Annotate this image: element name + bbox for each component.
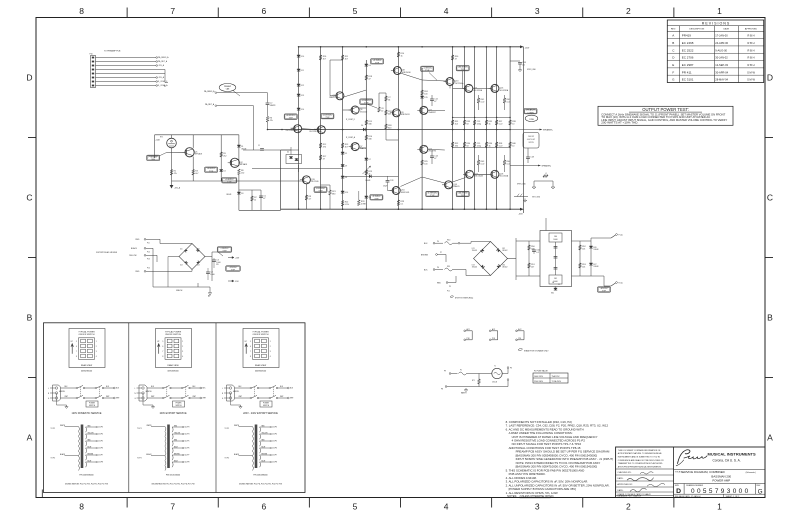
svg-text:3: 3 — [270, 351, 271, 353]
svg-text:5: 5 — [76, 341, 77, 343]
svg-text:YELLOW: YELLOW — [88, 432, 95, 434]
svg-text:TYP: TYP — [461, 69, 466, 71]
svg-text:INSTRUMENTS AND IS SUBMITTED T: INSTRUMENTS AND IS SUBMITTED TO YOU IN — [618, 456, 661, 459]
svg-text:C10 P5: C10 P5 — [98, 441, 103, 443]
svg-text:P/N 0048586000: P/N 0048586000 — [79, 475, 93, 477]
svg-text:3: 3 — [535, 6, 540, 16]
svg-text:ON/OFF SWITCH: ON/OFF SWITCH — [79, 334, 96, 336]
svg-text:R B H: R B H — [748, 48, 755, 52]
svg-text:EC 2522: EC 2522 — [682, 48, 694, 52]
svg-text:R B H: R B H — [748, 34, 755, 38]
svg-text:2: 2 — [270, 346, 271, 348]
svg-text:REAR VIEW: REAR VIEW — [81, 364, 92, 367]
svg-text:2k2: 2k2 — [223, 155, 226, 157]
svg-text:47: 47 — [323, 158, 325, 160]
svg-text:7: 7 — [250, 351, 251, 353]
svg-text:WHT: WHT — [193, 396, 196, 398]
svg-text:0.22: 0.22 — [507, 163, 511, 165]
svg-text:MJE15031: MJE15031 — [401, 114, 410, 116]
svg-text:CONFIDENCE AND SHALL NOT BE DI: CONFIDENCE AND SHALL NOT BE DISCLOSED OR — [618, 459, 664, 462]
svg-text:(Schematic): (Schematic) — [746, 471, 756, 474]
svg-text:8: 8 — [250, 356, 251, 358]
svg-text:BLK: BLK — [65, 386, 68, 388]
svg-text:UP: UP — [71, 341, 73, 343]
svg-text:GRN/YEL: GRN/YEL — [233, 391, 239, 393]
svg-text:WHT: WHT — [290, 398, 293, 400]
svg-text:C10 P3: C10 P3 — [98, 427, 103, 429]
svg-text:680PF: 680PF — [270, 105, 277, 107]
svg-text:RED: RED — [174, 439, 177, 441]
svg-text:P4: P4 — [437, 241, 439, 243]
svg-text:T5A 125V: T5A 125V — [552, 375, 561, 378]
svg-text:D2: D2 — [223, 170, 225, 172]
svg-text:6: 6 — [261, 6, 266, 16]
svg-text:4: 4 — [444, 6, 449, 16]
svg-text:BLACK: BLACK — [131, 247, 138, 250]
svg-text:1: 1 — [717, 6, 722, 16]
svg-text:YELLOW: YELLOW — [262, 432, 269, 434]
svg-text:C10 P7: C10 P7 — [185, 455, 190, 457]
svg-text:0.22: 0.22 — [481, 101, 485, 103]
svg-text:TYP: TYP — [430, 195, 435, 197]
svg-text:MJL3281A: MJL3281A — [500, 89, 509, 92]
svg-text:C10 P7: C10 P7 — [98, 455, 103, 457]
svg-text:8: 8 — [79, 502, 84, 512]
svg-text:1N4448: 1N4448 — [594, 266, 599, 268]
svg-text:GRN/YEL: GRN/YEL — [59, 391, 65, 393]
svg-text:47: 47 — [455, 58, 457, 60]
svg-text:47: 47 — [434, 158, 436, 160]
svg-text:P8: P8 — [441, 389, 443, 391]
svg-text:REAR VIEW: REAR VIEW — [167, 364, 178, 367]
svg-text:-15V_A: -15V_A — [158, 76, 165, 79]
svg-text:8: 8 — [162, 356, 163, 358]
svg-text:PREAMP: PREAMP — [149, 155, 159, 158]
svg-text:5: 5 — [250, 341, 251, 343]
svg-text:6: 6 — [76, 346, 77, 348]
svg-text:C66 C67: C66 C67 — [528, 136, 534, 138]
svg-text:7: 7 — [170, 6, 175, 16]
svg-text:MJL1302A: MJL1302A — [500, 175, 509, 178]
svg-text:WHITE: WHITE — [147, 425, 152, 427]
svg-text:0038236000: 0038236000 — [81, 370, 93, 372]
svg-text:BROWN: BROWN — [421, 255, 429, 257]
svg-text:24-APR-00: 24-APR-00 — [715, 41, 728, 45]
svg-text:C10 P6: C10 P6 — [98, 448, 103, 450]
svg-text:-65V: -65V — [519, 213, 524, 215]
svg-text:2W 2W: 2W 2W — [528, 142, 534, 144]
svg-text:330: 330 — [455, 145, 458, 147]
svg-text:RED: RED — [262, 439, 265, 441]
svg-text:P6: P6 — [437, 267, 439, 269]
svg-text:1N5402: 1N5402 — [502, 250, 507, 252]
svg-text:TO P1: TO P1 — [51, 428, 56, 430]
svg-text:0.5%: 0.5% — [345, 204, 350, 206]
svg-text:BLUE: BLUE — [174, 446, 178, 448]
svg-text:P16: P16 — [147, 268, 150, 270]
svg-text:1000: 1000 — [210, 274, 214, 276]
svg-text:4k7: 4k7 — [345, 146, 348, 148]
svg-text:D: D — [676, 488, 681, 495]
svg-text:WHT: WHT — [151, 396, 154, 398]
svg-text:REV.: REV. — [671, 29, 676, 31]
svg-text:P11: P11 — [147, 243, 150, 245]
svg-text:BLK: BLK — [239, 386, 242, 388]
svg-text:D24: D24 — [502, 265, 505, 267]
svg-text:PR419: PR419 — [682, 34, 692, 38]
svg-text:TYP: TYP — [231, 270, 236, 272]
svg-text:POWER AMP: POWER AMP — [712, 479, 730, 483]
svg-text:CHECKED BY:: CHECKED BY: — [617, 472, 631, 474]
svg-text:MPSA18: MPSA18 — [195, 153, 202, 156]
svg-text:PA_SEND_A: PA_SEND_A — [204, 90, 215, 93]
svg-text:100V-120V: 100V-120V — [534, 376, 544, 378]
svg-text:EC 3101: EC 3101 — [682, 78, 694, 82]
svg-text:DATE:: DATE: — [617, 489, 623, 492]
svg-text:A: A — [767, 433, 773, 443]
svg-text:D3: D3 — [241, 193, 243, 195]
svg-text:BLUE: BLUE — [88, 460, 92, 462]
svg-text:2: 2 — [182, 346, 183, 348]
svg-text:C61: C61 — [554, 278, 557, 280]
svg-text:0.22: 0.22 — [499, 145, 503, 147]
svg-text:+65V: +65V — [525, 47, 530, 49]
svg-text:D12: D12 — [301, 85, 304, 87]
svg-text:GRN/YEL: GRN/YEL — [146, 391, 152, 393]
svg-text:PA_RET_A: PA_RET_A — [205, 103, 215, 106]
svg-text:SPEAKER+: SPEAKER+ — [543, 129, 554, 132]
svg-text:C10 P3: C10 P3 — [272, 427, 277, 429]
svg-text:F1: F1 — [460, 370, 462, 372]
svg-text:+10dB: +10dB — [155, 140, 160, 142]
svg-text:D13: D13 — [197, 265, 200, 267]
svg-text:D11: D11 — [301, 70, 304, 72]
svg-text:2: 2 — [626, 502, 631, 512]
svg-text:2SC2240: 2SC2240 — [309, 131, 317, 133]
svg-text:0.1: 0.1 — [536, 252, 539, 254]
svg-text:DATE:: DATE: — [617, 477, 623, 480]
svg-text:C10 P4: C10 P4 — [272, 434, 277, 436]
svg-text:220V-240V: 220V-240V — [534, 381, 544, 383]
svg-text:P7: P7 — [440, 252, 442, 254]
svg-text:PR 411: PR 411 — [682, 70, 692, 74]
svg-text:7: 7 — [76, 351, 77, 353]
svg-text:10k: 10k — [582, 248, 585, 250]
svg-text:10: 10 — [512, 123, 514, 125]
svg-text:5: 5 — [353, 502, 358, 512]
svg-text:100V EXPORT SERVICE: 100V EXPORT SERVICE — [159, 412, 187, 415]
svg-text:C10 P6: C10 P6 — [185, 448, 190, 450]
svg-text:820: 820 — [388, 127, 391, 129]
svg-text:SIG: SIG — [151, 159, 155, 161]
svg-text:D4: D4 — [287, 152, 289, 154]
svg-text:T2.5A 250V: T2.5A 250V — [552, 380, 562, 383]
svg-text:4: 4 — [270, 356, 271, 358]
svg-text:3: 3 — [535, 502, 540, 512]
svg-text:1N5402: 1N5402 — [472, 250, 477, 252]
svg-text:1N5402: 1N5402 — [472, 267, 477, 269]
svg-text:E: E — [672, 63, 674, 67]
svg-text:1: 1 — [270, 341, 271, 343]
svg-text:1000: 1000 — [216, 262, 220, 264]
svg-text:D9: D9 — [345, 165, 347, 167]
svg-text:C10 P3: C10 P3 — [185, 427, 190, 429]
svg-text:TYP: TYP — [602, 291, 607, 293]
svg-text:C10 P6: C10 P6 — [272, 448, 277, 450]
svg-text:R B H: R B H — [748, 41, 755, 45]
svg-text:3: 3 — [182, 351, 183, 353]
svg-text:WHT: WHT — [280, 396, 283, 398]
svg-text:4.99K: 4.99K — [361, 203, 367, 205]
svg-text:MJL1302A: MJL1302A — [474, 175, 483, 178]
svg-text:5: 5 — [162, 341, 163, 343]
svg-text:47: 47 — [368, 78, 370, 80]
svg-text:2SA970: 2SA970 — [360, 147, 366, 150]
svg-text:N: N — [135, 393, 136, 395]
svg-text:1N5402: 1N5402 — [502, 267, 507, 269]
svg-text:DESCRIPTION: DESCRIPTION — [689, 29, 704, 31]
svg-text:D1: D1 — [241, 146, 243, 148]
svg-text:BLUE: BLUE — [88, 446, 92, 448]
svg-text:D26: D26 — [593, 247, 596, 249]
svg-text:C10 P5: C10 P5 — [185, 441, 190, 443]
svg-text:1: 1 — [182, 341, 183, 343]
svg-text:BLK: BLK — [151, 386, 154, 388]
svg-text:BLK: BLK — [193, 386, 196, 388]
svg-text:SWITCH: SWITCH — [263, 405, 269, 407]
svg-text:4k7: 4k7 — [195, 173, 198, 175]
svg-text:T1: T1 — [494, 366, 496, 368]
svg-text:1N4148: 1N4148 — [226, 194, 231, 196]
svg-text:P/N 0052056000: P/N 0052056000 — [166, 475, 180, 477]
svg-text:10000: 10000 — [553, 239, 557, 241]
svg-text:R E V I S I O N S: R E V I S I O N S — [702, 21, 730, 25]
svg-text:BLK: BLK — [280, 386, 283, 388]
svg-text:MUSICAL INSTRUMENTS: MUSICAL INSTRUMENTS — [708, 452, 756, 457]
svg-text:4.7: 4.7 — [309, 198, 312, 200]
svg-text:PA_RET_A: PA_RET_A — [158, 60, 168, 63]
svg-text:CONN: CONN — [527, 112, 534, 114]
svg-text:SWITCH: SWITCH — [175, 405, 181, 407]
svg-text:P13: P13 — [147, 259, 150, 261]
svg-text:1: 1 — [717, 502, 722, 512]
svg-text:0.047 0.047: 0.047 0.047 — [527, 139, 535, 141]
svg-text:2SC2240: 2SC2240 — [360, 111, 368, 113]
svg-text:DATE: DATE — [723, 28, 729, 31]
svg-text:C10 P8: C10 P8 — [98, 462, 103, 464]
svg-text:6: 6 — [261, 502, 266, 512]
svg-text:WHT: WHT — [106, 396, 109, 398]
svg-text:P18: P18 — [518, 338, 521, 340]
svg-text:DISTORTION AC GROUND: DISTORTION AC GROUND — [96, 251, 118, 254]
svg-text:SPEAKER-: SPEAKER- — [542, 165, 552, 168]
svg-text:BLUE: BLUE — [174, 460, 178, 462]
svg-text:VIRT_GND: VIRT_GND — [532, 197, 541, 199]
svg-text:THIS DOCUMENT CONTAINS INFORMA: THIS DOCUMENT CONTAINS INFORMATION OF — [618, 449, 661, 452]
svg-text:0.1: 0.1 — [401, 203, 404, 205]
svg-text:SPEAKER: SPEAKER — [525, 109, 536, 112]
svg-text:N: N — [48, 393, 49, 395]
svg-text:OUTPUT POWER TEST:: OUTPUT POWER TEST: — [642, 107, 689, 112]
svg-text:RED: RED — [174, 425, 177, 427]
svg-text:REV.: REV. — [757, 485, 762, 487]
svg-text:17-JAN-00: 17-JAN-00 — [715, 34, 728, 38]
svg-text:6: 6 — [250, 346, 251, 348]
svg-text:SPKR_GND: SPKR_GND — [517, 184, 527, 186]
svg-text:C60: C60 — [554, 236, 557, 238]
svg-text:2: 2 — [626, 6, 631, 16]
svg-text:+15V: +15V — [235, 257, 240, 259]
svg-text:100: 100 — [424, 163, 427, 165]
svg-text:82: 82 — [467, 145, 469, 147]
svg-text:56: 56 — [388, 99, 390, 101]
svg-text:S M W: S M W — [747, 78, 755, 82]
svg-text:4: 4 — [96, 356, 97, 358]
svg-text:220p: 220p — [477, 123, 481, 125]
svg-text:4k7: 4k7 — [345, 58, 348, 60]
svg-text:C: C — [26, 193, 32, 203]
svg-text:MJE15030: MJE15030 — [402, 72, 411, 74]
svg-text:D4: D4 — [369, 65, 371, 67]
svg-text:BROWN: BROWN — [262, 453, 268, 455]
svg-text:S_CLMP_F: S_CLMP_F — [158, 81, 168, 83]
svg-text:D22: D22 — [502, 248, 505, 250]
svg-text:7: 7 — [170, 502, 175, 512]
svg-text:C10 P7: C10 P7 — [272, 455, 277, 457]
svg-text:UP: UP — [245, 341, 247, 343]
svg-text:RED: RED — [88, 439, 91, 441]
svg-text:P9: P9 — [444, 371, 446, 373]
svg-text:R B H: R B H — [748, 63, 755, 67]
svg-text:47: 47 — [263, 198, 265, 200]
svg-text:D21: D21 — [472, 248, 475, 250]
svg-text:C1: C1 — [258, 145, 260, 147]
svg-text:D27: D27 — [593, 264, 596, 266]
svg-text:D13: D13 — [301, 95, 304, 97]
svg-text:SERVICE DIAGRAM, COMBINED: SERVICE DIAGRAM, COMBINED — [681, 470, 725, 474]
svg-text:D6: D6 — [361, 125, 363, 127]
svg-text:8: 8 — [76, 356, 77, 358]
svg-text:C10 P4: C10 P4 — [185, 434, 190, 436]
svg-text:A: A — [27, 433, 33, 443]
svg-text:1: 1 — [96, 341, 97, 343]
svg-text:BROWN: BROWN — [174, 453, 180, 455]
svg-text:S M W: S M W — [747, 70, 755, 74]
svg-text:TO P2: TO P2 — [51, 458, 56, 460]
svg-text:MPSA18: MPSA18 — [240, 163, 247, 166]
svg-text:4k3: 4k3 — [388, 113, 391, 115]
svg-text:C28: C28 — [390, 180, 394, 182]
svg-text:0048582000: 0048582000 — [255, 370, 267, 372]
svg-text:BLK: BLK — [106, 386, 109, 388]
svg-text:APPROVED: APPROVED — [745, 28, 758, 31]
svg-text:A2: A2 — [164, 85, 166, 88]
svg-text:C10 P8: C10 P8 — [272, 462, 277, 464]
svg-text:RELEASE DATE: 17-JAN-04: RELEASE DATE: 17-JAN-04 — [675, 495, 702, 498]
svg-text:POWER: POWER — [176, 403, 183, 405]
svg-text:1N4448: 1N4448 — [365, 180, 370, 182]
svg-text:YELLOW: YELLOW — [174, 432, 181, 434]
svg-text:W10: W10 — [447, 240, 450, 242]
svg-text:D5: D5 — [345, 153, 347, 155]
svg-text:PREAMP: PREAMP — [224, 85, 232, 88]
svg-text:TO P1: TO P1 — [137, 428, 142, 430]
svg-text:F: F — [672, 70, 674, 74]
svg-text:R_CLMP_F: R_CLMP_F — [346, 119, 355, 121]
svg-text:REAR VIEW: REAR VIEW — [255, 364, 266, 367]
svg-text:D14: D14 — [180, 265, 183, 267]
svg-text:12-SEP-03: 12-SEP-03 — [715, 63, 728, 67]
svg-text:APPROVED BY:: APPROVED BY: — [617, 483, 633, 486]
svg-text:100: 100 — [424, 93, 427, 95]
svg-text:TYP: TYP — [227, 181, 232, 183]
svg-text:5: 5 — [353, 6, 358, 16]
svg-text:TYP: TYP — [375, 62, 380, 64]
svg-text:TO P2: TO P2 — [137, 458, 142, 460]
svg-text:330: 330 — [368, 123, 371, 125]
svg-text:RT1: RT1 — [160, 137, 163, 139]
svg-text:2SA970: 2SA970 — [329, 96, 335, 99]
svg-text:D11: D11 — [180, 249, 183, 251]
svg-text:1k: 1k — [254, 199, 256, 201]
svg-text:UP: UP — [157, 341, 159, 343]
svg-text:P18: P18 — [467, 338, 470, 340]
svg-text:150: 150 — [241, 172, 244, 174]
svg-text:P10: P10 — [90, 54, 93, 56]
svg-text:TYP: TYP — [425, 70, 430, 72]
svg-text:1k: 1k — [489, 123, 491, 125]
svg-text:2k7: 2k7 — [531, 266, 534, 268]
svg-text:B: B — [672, 41, 674, 45]
svg-text:WHITE: WHITE — [60, 425, 65, 427]
svg-text:F1 FUSE VALUE: F1 FUSE VALUE — [534, 370, 548, 373]
svg-text:SWITCH: SWITCH — [89, 405, 95, 407]
svg-text:TYP: TYP — [374, 198, 379, 200]
svg-text:C18: C18 — [530, 157, 534, 159]
svg-text:W11: W11 — [447, 266, 450, 268]
svg-text:L1: L1 — [545, 173, 547, 175]
svg-text:470: 470 — [323, 146, 326, 148]
svg-text:YELLOW: YELLOW — [129, 255, 137, 257]
svg-text:TYP: TYP — [209, 171, 214, 173]
svg-text:1k: 1k — [489, 145, 491, 147]
svg-text:P/N 0060086000: P/N 0060086000 — [253, 475, 267, 477]
svg-text:TO P1: TO P1 — [225, 428, 230, 430]
svg-text:2: 2 — [96, 346, 97, 348]
svg-text:D6: D6 — [345, 177, 347, 179]
svg-text:WHT: WHT — [116, 398, 119, 400]
svg-text:BLK: BLK — [116, 388, 119, 390]
svg-text:TO PREAMP PCB: TO PREAMP PCB — [104, 50, 121, 53]
svg-text:2SC2240: 2SC2240 — [311, 181, 319, 183]
svg-text:7: 7 — [162, 351, 163, 353]
svg-text:1k: 1k — [401, 55, 403, 57]
svg-text:47k: 47k — [174, 173, 177, 175]
svg-text:DRAWING NUMBER: DRAWING NUMBER — [686, 484, 704, 487]
svg-text:N: N — [222, 393, 223, 395]
svg-text:P18: P18 — [492, 338, 495, 340]
svg-text:WHT: WHT — [239, 396, 242, 398]
svg-text:TYP: TYP — [318, 191, 323, 193]
svg-text:CONN: CONN — [529, 119, 535, 121]
svg-text:200 WATTS AT <10% THD.: 200 WATTS AT <10% THD. — [601, 121, 638, 125]
svg-text:C: C — [767, 193, 773, 203]
svg-text:4: 4 — [182, 356, 183, 358]
svg-text:TYP: TYP — [222, 251, 227, 253]
svg-text:SPKR_GND: SPKR_GND — [527, 69, 537, 71]
svg-text:P5: P5 — [449, 286, 451, 288]
svg-text:0.22: 0.22 — [481, 163, 485, 165]
